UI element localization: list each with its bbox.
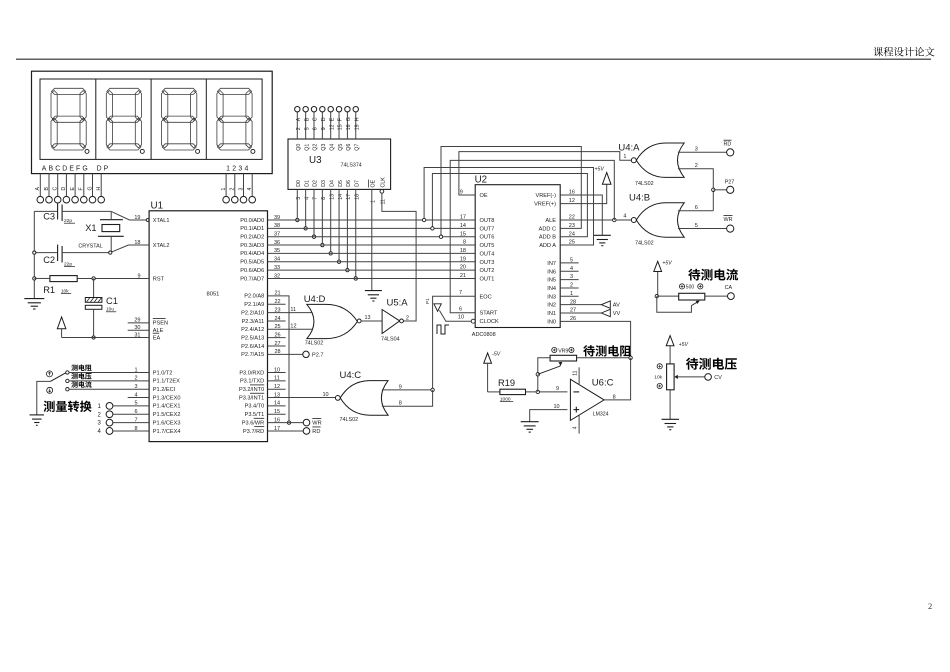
svg-text:CV: CV bbox=[714, 375, 722, 381]
svg-text:9: 9 bbox=[556, 386, 559, 392]
svg-text:IN6: IN6 bbox=[547, 269, 556, 275]
svg-text:CLK: CLK bbox=[381, 177, 387, 188]
junction current source node bbox=[655, 294, 658, 297]
svg-text:D4: D4 bbox=[329, 180, 335, 187]
wire C1 to EA net bbox=[93, 309, 95, 337]
wire P2.2/A10 to U4:D input 11 bbox=[268, 312, 318, 314]
wire U4:C input 8 tie bbox=[382, 390, 433, 406]
wire P0 bus AD2 bbox=[268, 236, 476, 238]
wire opamp output to resistance node bbox=[604, 358, 631, 400]
svg-text:OUT8: OUT8 bbox=[480, 218, 495, 224]
svg-text:ALE: ALE bbox=[545, 218, 556, 224]
svg-text:5: 5 bbox=[304, 127, 310, 130]
svg-text:8: 8 bbox=[399, 401, 402, 407]
wire P3.3/INT1 to U4:C output bbox=[268, 397, 336, 399]
terminal digit 4 bbox=[249, 196, 256, 203]
power +5V at VREF(+) bbox=[602, 173, 611, 185]
svg-text:2: 2 bbox=[406, 315, 409, 321]
svg-text:74LS04: 74LS04 bbox=[381, 337, 400, 343]
power -5V arrow bbox=[484, 353, 492, 363]
svg-text:P0.3/AD3: P0.3/AD3 bbox=[240, 243, 264, 249]
wire U4:B input 5 to terminal WR bbox=[678, 228, 727, 230]
ground at switch bbox=[30, 414, 45, 416]
wire R19 to inverting input bbox=[526, 391, 568, 393]
wire U3 D7 to P0 bus with junction bbox=[355, 189, 357, 278]
svg-text:IN5: IN5 bbox=[547, 278, 556, 284]
page header title 课程设计论文 bbox=[873, 47, 934, 56]
U2 IN7 stub wire bbox=[560, 262, 578, 264]
svg-text:D0: D0 bbox=[296, 180, 302, 187]
svg-text:7: 7 bbox=[459, 290, 462, 296]
terminal RD bbox=[303, 428, 310, 435]
nor gate U4:A mirrored bbox=[636, 143, 684, 177]
svg-text:AV: AV bbox=[613, 303, 620, 309]
display digit-select pin 1 wire bbox=[225, 174, 227, 197]
svg-text:19: 19 bbox=[460, 256, 466, 262]
svg-text:C1: C1 bbox=[106, 296, 118, 306]
svg-text:1: 1 bbox=[221, 188, 227, 191]
terminal B bbox=[46, 196, 53, 203]
svg-text:VREF(-): VREF(-) bbox=[535, 193, 556, 199]
svg-text:3: 3 bbox=[695, 147, 698, 153]
svg-text:21: 21 bbox=[460, 273, 466, 279]
svg-text:P1.5/CEX2: P1.5/CEX2 bbox=[153, 412, 181, 418]
svg-text:A: A bbox=[296, 117, 302, 121]
label 测电流 bbox=[71, 381, 91, 387]
svg-text:2: 2 bbox=[695, 163, 698, 169]
svg-text:8051: 8051 bbox=[207, 291, 220, 297]
wire U3 D5 to P0 bus with junction bbox=[338, 189, 340, 261]
svg-text:B: B bbox=[44, 187, 50, 191]
svg-text:12: 12 bbox=[290, 324, 296, 330]
svg-text:P3.2/INT0: P3.2/INT0 bbox=[239, 387, 264, 393]
wire VR9 to resistance node bbox=[577, 357, 631, 359]
display digit 1 seven-segment outline bbox=[51, 88, 86, 150]
wire terminal 2 to P1.5 bbox=[113, 413, 149, 415]
svg-text:17: 17 bbox=[460, 215, 466, 221]
svg-text:1234: 1234 bbox=[226, 165, 251, 172]
MCU U1 8051 body bbox=[149, 211, 267, 442]
label 待测电压 bbox=[686, 358, 737, 370]
ground at VREF(-) bbox=[594, 234, 611, 236]
svg-text:P2.6/A14: P2.6/A14 bbox=[241, 344, 264, 350]
svg-text:U4:D: U4:D bbox=[304, 294, 326, 305]
resistor R1 body bbox=[50, 276, 77, 282]
U4:C output bubble bbox=[335, 396, 340, 401]
svg-text:P1.1/T2EX: P1.1/T2EX bbox=[153, 379, 180, 385]
U1 P3.5 stub wire bbox=[268, 413, 286, 415]
svg-text:4: 4 bbox=[572, 426, 578, 429]
wire U4:A input 2 to P27 junction bbox=[678, 169, 713, 211]
wire ADD C to P0.2 bbox=[441, 147, 581, 237]
svg-text:6: 6 bbox=[459, 307, 462, 313]
svg-text:2: 2 bbox=[230, 188, 236, 191]
terminal 3 at P1.6 bbox=[106, 419, 113, 426]
wire U3 D3 to P0 bus with junction bbox=[321, 189, 323, 245]
switch rotary mark up bbox=[47, 371, 53, 377]
svg-text:XTAL1: XTAL1 bbox=[153, 218, 170, 224]
svg-text:IN0: IN0 bbox=[547, 319, 556, 325]
wire ground rail to C3 bbox=[34, 210, 57, 212]
svg-text:10k: 10k bbox=[654, 375, 662, 381]
ground at left rail bbox=[24, 298, 44, 300]
svg-text:19: 19 bbox=[354, 124, 360, 130]
power +5V at current source bbox=[654, 261, 662, 271]
svg-text:G: G bbox=[346, 117, 352, 121]
wire ground rail to C2 bbox=[34, 252, 57, 254]
junction resistance node bbox=[629, 356, 632, 359]
svg-text:ADD B: ADD B bbox=[539, 235, 556, 241]
junction ADD B on P0.1 bbox=[431, 227, 434, 230]
wire U3 D2 to P0 bus with junction bbox=[313, 189, 315, 236]
svg-text:P1.6/CEX3: P1.6/CEX3 bbox=[153, 420, 181, 426]
wire ADD B to P0.1 bbox=[432, 174, 587, 237]
terminal A bbox=[37, 196, 44, 203]
label 待测电阻 bbox=[583, 345, 631, 356]
svg-text:1: 1 bbox=[623, 154, 626, 160]
U2 CLOCK inversion bubble bbox=[471, 319, 475, 323]
svg-text:WR: WR bbox=[724, 217, 733, 223]
wire U3 D1 to P0 bus with junction bbox=[305, 189, 307, 228]
U3 output Q6 wire to terminal bbox=[346, 112, 348, 139]
svg-text:E: E bbox=[70, 187, 76, 191]
opamp plus sign bbox=[573, 409, 579, 411]
svg-text:VV: VV bbox=[613, 311, 621, 317]
svg-text:WR: WR bbox=[312, 421, 321, 427]
junction U4:C inputs bbox=[431, 388, 434, 391]
U4:D output bubble bbox=[357, 319, 361, 323]
svg-text:Q2: Q2 bbox=[313, 144, 319, 151]
svg-text:P3.3/INT1: P3.3/INT1 bbox=[239, 395, 264, 401]
display segment pin A wire bbox=[39, 174, 41, 197]
svg-text:P1.0/T2: P1.0/T2 bbox=[153, 370, 173, 376]
svg-text:C: C bbox=[53, 187, 59, 191]
svg-text:F: F bbox=[79, 187, 85, 190]
svg-text:IN4: IN4 bbox=[547, 286, 556, 292]
svg-text:P0.1/AD1: P0.1/AD1 bbox=[240, 226, 264, 232]
terminal digit 2 bbox=[232, 196, 239, 203]
junction ALE START bbox=[613, 218, 616, 221]
svg-text:10: 10 bbox=[458, 315, 464, 321]
svg-text:500: 500 bbox=[686, 285, 695, 291]
wire feedback to VR9 bbox=[538, 358, 550, 392]
inverter U5:A triangle bbox=[382, 310, 400, 334]
wire rail to R1 bbox=[34, 277, 50, 279]
terminal G on U3 Q6 bbox=[345, 107, 350, 112]
svg-text:2: 2 bbox=[296, 127, 302, 130]
terminal WR right bbox=[727, 225, 734, 232]
U6:C power pin 11 stub bbox=[578, 367, 580, 385]
svg-text:15: 15 bbox=[338, 124, 344, 130]
svg-text:LM324: LM324 bbox=[593, 411, 609, 417]
svg-text:P2.2/A10: P2.2/A10 bbox=[241, 310, 264, 316]
U2 IN5 stub wire bbox=[560, 279, 578, 281]
wire +5V to RV1 bbox=[657, 295, 679, 297]
wire P0 bus AD4 bbox=[268, 252, 476, 254]
U3 output Q0 wire to terminal bbox=[296, 112, 298, 139]
svg-text:13: 13 bbox=[365, 315, 371, 321]
U1 P3.4 stub wire bbox=[268, 405, 286, 407]
svg-text:U1: U1 bbox=[151, 201, 164, 212]
wire U3 D6 to P0 bus with junction bbox=[346, 189, 348, 270]
U3 output Q1 wire to terminal bbox=[305, 112, 307, 139]
wire C3 to XTAL1 with crystal tap bbox=[62, 210, 111, 212]
crystal X1 bbox=[100, 219, 123, 221]
U3 output Q5 wire to terminal bbox=[338, 112, 340, 139]
terminal C on U3 Q2 bbox=[311, 107, 316, 112]
svg-text:Q5: Q5 bbox=[338, 144, 344, 151]
display inner frame bbox=[40, 79, 262, 159]
display segment pin H wire bbox=[100, 174, 102, 197]
display segment pin F wire bbox=[83, 174, 85, 197]
opamp U6:C triangle bbox=[570, 379, 604, 420]
svg-text:3: 3 bbox=[238, 188, 244, 191]
svg-text:R1: R1 bbox=[43, 285, 55, 295]
svg-text:EOC: EOC bbox=[480, 294, 492, 300]
terminal F on U3 Q5 bbox=[336, 107, 341, 112]
display segment pin C wire bbox=[57, 174, 59, 197]
svg-text:U4:B: U4:B bbox=[629, 192, 650, 203]
svg-text:Q7: Q7 bbox=[354, 144, 360, 151]
wire switch contact 2 to P1.1 bbox=[69, 380, 149, 382]
wire terminal 4 to P1.7 bbox=[113, 430, 149, 432]
wire P0 bus AD1 bbox=[268, 227, 476, 229]
svg-text:-5V: -5V bbox=[492, 351, 501, 357]
potentiometer VR9 body bbox=[550, 355, 577, 361]
svg-text:B: B bbox=[304, 117, 310, 121]
opamp minus sign bbox=[573, 391, 579, 393]
svg-text:X1: X1 bbox=[85, 223, 96, 233]
wire OE to U4:A output bbox=[459, 152, 631, 195]
svg-text:D: D bbox=[61, 187, 67, 191]
junction P27 bbox=[712, 188, 715, 191]
display digit 4 decimal point bbox=[251, 149, 255, 153]
svg-text:OUT4: OUT4 bbox=[480, 251, 495, 257]
display digit cell dividers bbox=[96, 79, 207, 159]
svg-text:P1.4/CEX1: P1.4/CEX1 bbox=[153, 404, 181, 410]
svg-text:OE: OE bbox=[371, 179, 377, 187]
terminal A on U3 Q0 bbox=[295, 107, 300, 112]
svg-text:C3: C3 bbox=[43, 212, 55, 222]
resistor R19 body bbox=[500, 389, 526, 394]
wire U3 D0 to P0 bus with junction bbox=[296, 189, 298, 220]
wire IN2 to AV input bbox=[560, 304, 601, 306]
svg-text:Q3: Q3 bbox=[321, 144, 327, 151]
svg-text:START: START bbox=[480, 311, 498, 317]
input marker AV bbox=[601, 301, 610, 308]
svg-text:P2.0/A8: P2.0/A8 bbox=[244, 294, 264, 300]
svg-text:P2.7/A15: P2.7/A15 bbox=[241, 352, 264, 358]
svg-text:Q4: Q4 bbox=[329, 144, 335, 151]
svg-text:ADD C: ADD C bbox=[539, 226, 556, 232]
display segment pin G wire bbox=[92, 174, 94, 197]
U3 output Q2 wire to terminal bbox=[313, 112, 315, 139]
terminal 1 at P1.4 bbox=[106, 403, 113, 410]
U4:A output bubble bbox=[631, 158, 636, 163]
wire terminal 3 to P1.6 bbox=[113, 422, 149, 424]
U3 output Q3 wire to terminal bbox=[321, 112, 323, 139]
ground rail left bbox=[33, 211, 35, 298]
svg-text:4: 4 bbox=[247, 188, 253, 191]
svg-text:OUT2: OUT2 bbox=[480, 268, 495, 274]
svg-text:U6:C: U6:C bbox=[592, 378, 614, 389]
svg-text:P3.0/RXD: P3.0/RXD bbox=[239, 370, 264, 376]
wire RV1 to terminal CA bbox=[705, 295, 728, 297]
svg-text:EA: EA bbox=[153, 335, 161, 341]
svg-text:CLOCK: CLOCK bbox=[480, 319, 500, 325]
svg-text:U3: U3 bbox=[309, 155, 322, 166]
svg-text:4: 4 bbox=[623, 214, 626, 220]
terminal digit 1 bbox=[223, 196, 230, 203]
selector switch SW1 contacts bbox=[66, 371, 69, 374]
svg-text:E: E bbox=[329, 117, 335, 121]
wire RV1 wiper loop bbox=[657, 296, 692, 312]
junction ring at XTAL1 pin bbox=[146, 219, 149, 222]
U1 P2.3 stub wire bbox=[268, 320, 286, 322]
svg-text:ADC0808: ADC0808 bbox=[472, 332, 496, 338]
svg-text:P3.1/TXD: P3.1/TXD bbox=[240, 379, 264, 385]
svg-text:IN7: IN7 bbox=[547, 261, 556, 267]
svg-text:P27: P27 bbox=[725, 180, 735, 186]
svg-text:H: H bbox=[354, 117, 360, 121]
wire noninverting input to ground bbox=[530, 410, 568, 422]
label 测电阻 bbox=[71, 364, 91, 370]
junction ADD C on P0.2 bbox=[439, 235, 442, 238]
svg-text:14: 14 bbox=[460, 223, 466, 229]
svg-text:VR9: VR9 bbox=[558, 348, 568, 354]
clock source P1 symbol bbox=[434, 304, 441, 312]
terminal F bbox=[81, 196, 88, 203]
U1 ALE stub wire bbox=[128, 329, 149, 331]
svg-text:5: 5 bbox=[695, 223, 698, 229]
wire P3.7/RD to terminal RD bbox=[268, 430, 304, 432]
svg-text:10: 10 bbox=[554, 404, 560, 410]
svg-text:9: 9 bbox=[321, 127, 327, 130]
U5:A output bubble bbox=[400, 319, 404, 323]
svg-text:U4:A: U4:A bbox=[618, 142, 640, 153]
svg-text:D3: D3 bbox=[321, 180, 327, 187]
latch U3 74LS374 body bbox=[288, 139, 391, 189]
potentiometer RV1 500 body bbox=[679, 293, 705, 300]
svg-text:ABCDEFG: ABCDEFG bbox=[42, 165, 90, 172]
svg-text:DP: DP bbox=[97, 165, 111, 172]
svg-text:U5:A: U5:A bbox=[387, 298, 409, 309]
wire IN0 to resistance node bbox=[560, 321, 630, 357]
U1 P2.1 stub wire bbox=[268, 303, 286, 305]
svg-text:Q6: Q6 bbox=[346, 144, 352, 151]
wire RV2 to ground bbox=[669, 390, 671, 420]
svg-text:OUT1: OUT1 bbox=[480, 276, 495, 282]
terminal C bbox=[54, 196, 61, 203]
wire U3 CLK to U5:A output bbox=[382, 193, 416, 321]
display digit 2 decimal point bbox=[140, 149, 144, 153]
U2 IN6 stub wire bbox=[560, 270, 578, 272]
U1 P2.6 stub wire bbox=[268, 345, 286, 347]
wire VCC to EA pin 31 bbox=[62, 337, 150, 339]
svg-text:P0.7/AD7: P0.7/AD7 bbox=[240, 276, 264, 282]
svg-text:IN3: IN3 bbox=[547, 294, 556, 300]
terminal RD right bbox=[727, 149, 734, 156]
svg-text:XTAL2: XTAL2 bbox=[153, 243, 170, 249]
svg-text:10: 10 bbox=[323, 392, 329, 398]
terminal 4 at P1.7 bbox=[106, 428, 113, 435]
display digit 3 seven-segment outline bbox=[162, 88, 197, 150]
wire P0 bus AD0 bbox=[268, 219, 476, 221]
svg-text:P1: P1 bbox=[425, 298, 430, 304]
svg-text:D2: D2 bbox=[313, 180, 319, 187]
terminal P27 bbox=[727, 186, 734, 193]
terminal digit 3 bbox=[240, 196, 247, 203]
capacitor C3 plates bbox=[57, 203, 59, 219]
power +5V at voltage source bbox=[666, 336, 674, 346]
junction VR9 wiper node bbox=[536, 373, 539, 376]
svg-text:+5V: +5V bbox=[679, 342, 689, 348]
U3 output Q7 wire to terminal bbox=[355, 112, 357, 139]
terminal P2.7 bbox=[303, 351, 309, 357]
wire switch pole to ground bbox=[37, 381, 51, 415]
svg-text:D5: D5 bbox=[338, 180, 344, 187]
wire P0 bus AD3 bbox=[268, 244, 476, 246]
svg-text:9: 9 bbox=[399, 384, 402, 390]
svg-text:6: 6 bbox=[313, 127, 319, 130]
svg-text:P0.5/AD5: P0.5/AD5 bbox=[240, 260, 264, 266]
U2 IN4 stub wire bbox=[560, 287, 578, 289]
wire U4:C input 9 to EOC riser bbox=[382, 389, 433, 391]
svg-text:12: 12 bbox=[329, 124, 335, 130]
svg-text:Q0: Q0 bbox=[296, 144, 302, 151]
junction ADD A on P0.0 bbox=[422, 218, 425, 221]
U1 PSEN stub wire bbox=[128, 322, 149, 324]
wire U4:A input 3 to terminal RD bbox=[678, 151, 727, 153]
svg-text:+5V: +5V bbox=[595, 167, 605, 173]
junction ring crystal bottom bbox=[109, 251, 112, 254]
RV1 wiper arrow bbox=[691, 301, 698, 305]
switch rotary mark down bbox=[47, 387, 53, 393]
wire P2.7/A15 to terminal bbox=[268, 353, 304, 355]
svg-text:CA: CA bbox=[725, 285, 733, 291]
switch arm bbox=[50, 373, 65, 382]
svg-text:8: 8 bbox=[613, 394, 616, 400]
svg-text:P3.4/T0: P3.4/T0 bbox=[245, 404, 265, 410]
terminal G bbox=[89, 196, 96, 203]
display digit 3 decimal point bbox=[196, 149, 200, 153]
wire P0 bus AD6 bbox=[268, 269, 476, 271]
svg-text:P3.7/RD: P3.7/RD bbox=[243, 429, 264, 435]
svg-text:74LS02: 74LS02 bbox=[635, 181, 654, 187]
svg-text:74LS02: 74LS02 bbox=[305, 341, 324, 347]
svg-text:20: 20 bbox=[460, 265, 466, 271]
svg-text:CRYSTAL: CRYSTAL bbox=[78, 244, 102, 250]
wire switch contact 1 to P1.0 bbox=[69, 372, 149, 374]
svg-text:P2.7: P2.7 bbox=[312, 352, 324, 358]
terminal H on U3 Q7 bbox=[353, 107, 358, 112]
svg-text:OE: OE bbox=[480, 193, 488, 199]
potentiometer RV2 10k body vertical bbox=[667, 364, 675, 390]
svg-text:P2.3/A11: P2.3/A11 bbox=[242, 319, 265, 325]
junction R19 node bbox=[536, 390, 539, 393]
wire junction to terminal P27 bbox=[713, 189, 726, 191]
svg-text:RD: RD bbox=[312, 429, 320, 435]
svg-text:D6: D6 bbox=[346, 180, 352, 187]
terminal CA bbox=[728, 293, 735, 300]
display segment pin D wire bbox=[65, 174, 67, 197]
label 待测电流 bbox=[688, 269, 738, 281]
wire P2.0/A8 to WR net junction bbox=[268, 296, 290, 423]
display digit 4 seven-segment outline bbox=[217, 88, 252, 150]
svg-text:H: H bbox=[96, 187, 102, 191]
terminal D on U3 Q3 bbox=[320, 107, 325, 112]
label VR9 with adjust marks bbox=[552, 347, 557, 352]
